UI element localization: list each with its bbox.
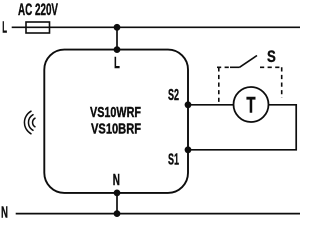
wire: bottom N line: [16, 213, 300, 215]
svg-text:N: N: [1, 205, 8, 221]
switch S blade: [240, 56, 258, 68]
wire: L drop to receiver: [116, 27, 118, 49]
dashed enclosure right side: [281, 67, 283, 98]
svg-text:S: S: [267, 47, 276, 66]
wire: S2 to thermostat: [188, 104, 234, 106]
svg-text:N: N: [113, 172, 120, 189]
receiver module VS10WRF/VS10BRF (rounded box): [44, 50, 188, 193]
wire: top L line: [12, 26, 300, 28]
pin S2 terminal dot: [185, 101, 192, 108]
pin N terminal dot: [114, 190, 121, 197]
wire: N drop from receiver: [116, 193, 118, 214]
antenna / radio waves symbol: [24, 111, 35, 134]
junction dot on bottom line: [114, 210, 121, 217]
dashed enclosure (thermostat assembly) left side: [218, 67, 220, 104]
svg-text:S2: S2: [168, 87, 179, 104]
svg-text:S1: S1: [168, 151, 179, 168]
svg-text:VS10BRF: VS10BRF: [91, 122, 141, 138]
svg-text:L: L: [114, 55, 120, 72]
dashed enclosure top-left segment: [217, 66, 230, 68]
junction dot on top line: [114, 24, 121, 31]
dashed enclosure top-right segment: [260, 66, 282, 68]
thermostat T (circle): [234, 87, 269, 122]
switch S contact line: [230, 66, 240, 68]
svg-text:T: T: [246, 92, 255, 117]
svg-text:VS10WRF: VS10WRF: [90, 105, 141, 121]
svg-text:AC 220V: AC 220V: [18, 1, 58, 19]
fuse F1: [26, 22, 50, 33]
pin S1 terminal dot: [185, 146, 192, 153]
wire: thermostat to right riser: [188, 105, 296, 150]
pin L terminal dot: [114, 46, 121, 53]
svg-text:L: L: [2, 19, 7, 36]
